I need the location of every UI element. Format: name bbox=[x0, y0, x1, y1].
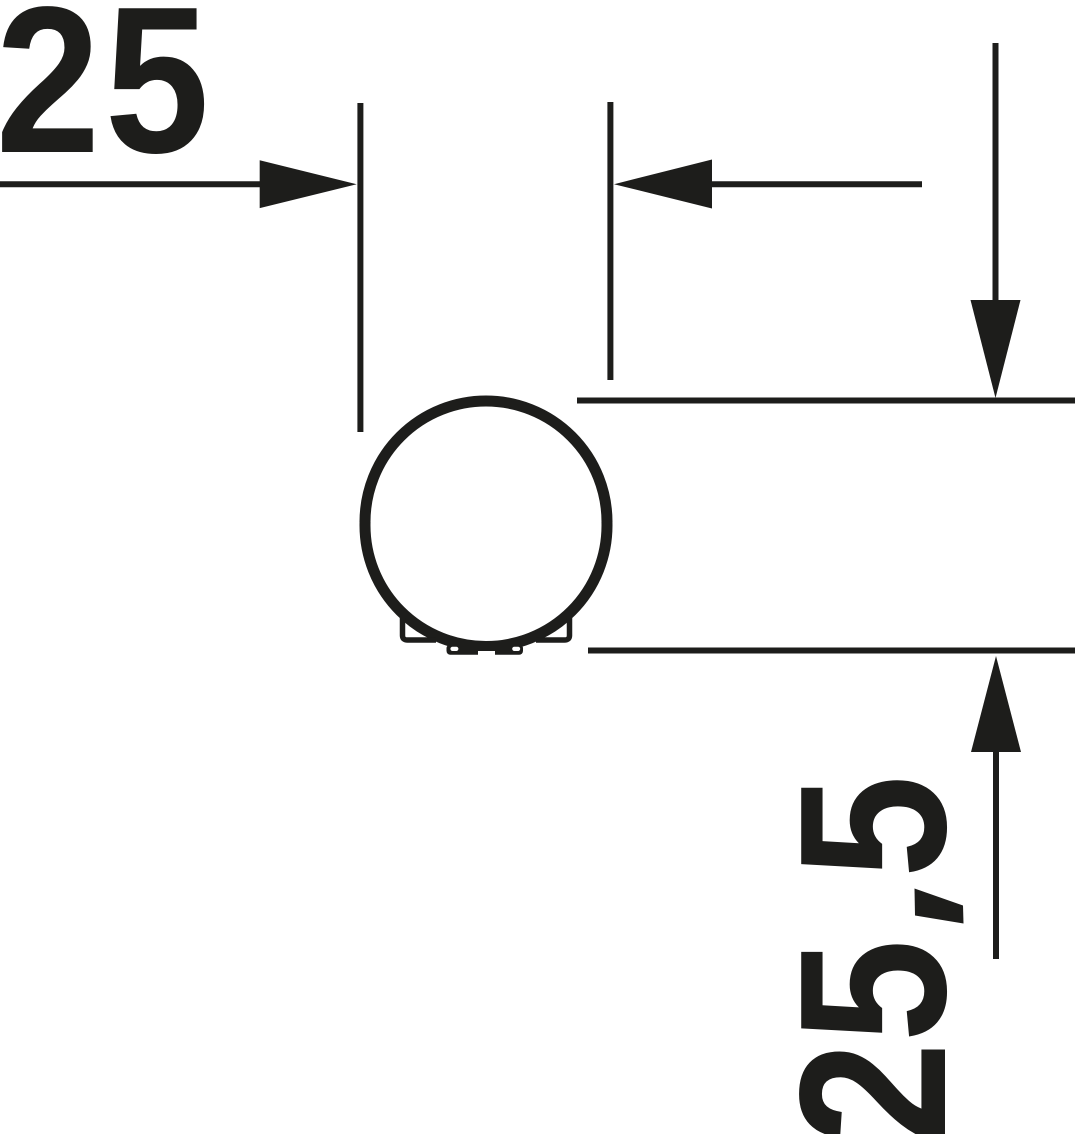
foot band right slot (white) bbox=[512, 647, 520, 651]
dimension arrow pointing right (left side of 25 dimension) bbox=[0, 160, 357, 208]
foot band centre notch (white) bbox=[478, 651, 495, 658]
extension line at x=610 (right tangent of profile) bbox=[607, 102, 613, 380]
right mounting ear bbox=[536, 618, 570, 640]
circle: shower rail profile outline (lower half, slightly dropped) bbox=[365, 405, 607, 647]
datum line bottom (lower reference line) bbox=[588, 648, 1075, 654]
extension line at x=360 (left tangent of profile) bbox=[357, 103, 363, 432]
svg-text:25: 25 bbox=[755, 939, 989, 1134]
dimension label 25,5 (rotated): decimal comma bbox=[915, 889, 964, 924]
circle: shower rail profile outline (upper half) bbox=[365, 401, 607, 643]
datum line top (upper reference line) bbox=[577, 398, 1075, 404]
bottom foot band of profile bbox=[447, 645, 524, 655]
foot band left slot (white) bbox=[450, 647, 458, 651]
dimension arrow pointing down (25,5 top) bbox=[971, 43, 1021, 398]
left mounting ear bbox=[403, 618, 437, 640]
svg-text:25: 25 bbox=[0, 0, 209, 197]
svg-text:5: 5 bbox=[755, 775, 989, 878]
dimension arrow pointing left (right side of 25 dimension) bbox=[614, 160, 922, 209]
dimension arrow pointing up (25,5 bottom) bbox=[971, 656, 1021, 959]
